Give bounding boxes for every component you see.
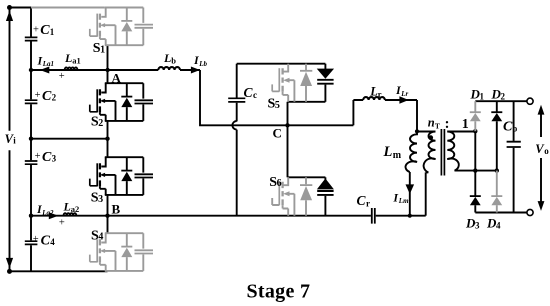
svg-text:+: + (35, 90, 41, 101)
svg-text:Lm: Lm (398, 197, 409, 205)
wire bridge bottom rail (475, 212, 527, 214)
svg-text:+: + (33, 25, 39, 36)
node A junction (105, 68, 109, 72)
svg-text:4: 4 (50, 237, 55, 247)
svg-text:L: L (383, 144, 393, 160)
diode D1 (gray) (470, 101, 481, 131)
svg-text:2: 2 (501, 92, 506, 102)
labels middle and right (244, 83, 550, 230)
svg-text:Lr: Lr (400, 90, 408, 98)
transistor S6 (gray, off) (272, 177, 294, 215)
svg-text:L: L (64, 51, 72, 65)
svg-text:C: C (244, 85, 254, 100)
diode D4 (gray) (491, 171, 502, 213)
svg-text:4: 4 (496, 221, 501, 231)
wire row A corner down to node C (200, 70, 288, 125)
wire node C to Lr branch (288, 100, 364, 125)
current arrow ILa2 (49, 212, 59, 219)
svg-text:C: C (503, 120, 513, 135)
wire S5 bottom rail (288, 101, 326, 103)
current arrow ILb (191, 67, 200, 74)
svg-text:1: 1 (480, 92, 485, 102)
inductor Lr (363, 97, 385, 100)
svg-text:C: C (357, 193, 367, 208)
wire Cc to bottom rail (236, 130, 238, 216)
node C junction (285, 123, 289, 127)
node ILa1 junction (29, 68, 33, 72)
svg-text:C: C (40, 23, 50, 38)
svg-text:L: L (63, 199, 71, 213)
svg-text:Stage 7: Stage 7 (247, 280, 311, 302)
svg-text:c: c (253, 90, 257, 100)
transistor S2 (black, on) (90, 83, 153, 121)
wire secondary top lead (447, 131, 475, 133)
wire Lm to bottom rail (409, 172, 411, 216)
svg-text:1: 1 (462, 117, 469, 132)
wire capacitor column x=31 (30, 8, 32, 272)
capacitor C4 (25, 241, 38, 244)
wire node A to S2 (107, 70, 109, 83)
node Lm top junction (415, 129, 419, 133)
diode-capacitor branch of S5 (black) (317, 64, 333, 102)
node ILa2 junction (29, 214, 33, 218)
wire S6 top rail (288, 176, 326, 178)
wire S1 source to node A (107, 45, 109, 70)
wire hop over node C wire (232, 121, 236, 130)
svg-text:1: 1 (50, 27, 55, 37)
secondary winding (447, 132, 458, 171)
svg-text:1: 1 (100, 45, 105, 56)
svg-text:2: 2 (52, 93, 57, 103)
wire Lr to corner (385, 100, 417, 131)
svg-text:4: 4 (98, 232, 103, 243)
capacitor Co (507, 101, 521, 212)
svg-text:6: 6 (277, 178, 282, 189)
node secondary top junction (473, 129, 477, 133)
current arrow ILr (399, 96, 408, 103)
svg-text:5: 5 (275, 100, 280, 111)
output rectifier and filter (470, 98, 545, 215)
node secondary bottom junction (473, 168, 477, 172)
svg-text:2: 2 (98, 118, 103, 129)
wire secondary bottom lead (455, 170, 497, 172)
wire primary top lead (417, 131, 436, 133)
terminal top circle (527, 98, 533, 104)
labels left section (5, 23, 311, 302)
inductor La2 (64, 213, 77, 216)
transistor S5 (gray, off) (272, 64, 294, 102)
wire S3 to node B (107, 195, 109, 216)
svg-text:3: 3 (98, 194, 103, 205)
transistor S4 (gray, off) (90, 233, 153, 271)
wire bridge top rail (475, 100, 527, 102)
wire top rail from Vi to capacitor column (10, 7, 33, 9)
svg-text:+: + (59, 71, 65, 82)
transformer T1 (424, 129, 497, 216)
primary return to rail corner (425, 172, 427, 215)
inductor Lm (406, 131, 417, 172)
svg-text:A: A (112, 70, 122, 85)
svg-text:m: m (393, 150, 402, 161)
body diode of S5 (gray) (300, 64, 312, 102)
output voltage Vo arrow (538, 105, 545, 211)
svg-text:L: L (163, 51, 171, 65)
svg-text:r: r (366, 199, 370, 209)
diode D2 (black) (491, 101, 502, 170)
svg-text:T: T (435, 121, 440, 130)
svg-text:C: C (42, 89, 52, 104)
svg-text:n: n (428, 116, 435, 130)
wire bridge mid vertical (474, 131, 476, 170)
core lines (441, 129, 444, 176)
wire node C to S6 (287, 125, 289, 177)
svg-text:a2: a2 (71, 204, 80, 214)
middle block: Cc + S5 + S6 (228, 64, 333, 216)
svg-text:La1: La1 (42, 60, 54, 68)
svg-text:a1: a1 (72, 56, 81, 66)
wire S5 top rail (237, 63, 326, 65)
current arrow ILm (406, 184, 415, 194)
diode D3 (black) (470, 171, 481, 213)
svg-text:r: r (378, 89, 382, 99)
polarity dot primary (429, 135, 434, 140)
transistor S3 (black, on) (90, 157, 153, 195)
svg-text:3: 3 (475, 221, 480, 231)
wire row B main rail (31, 215, 426, 217)
capacitor C2 (25, 100, 38, 103)
input source Vi measurement line (6, 5, 13, 274)
body diode of S6 (gray) (300, 177, 312, 215)
node B junction (105, 214, 109, 218)
svg-text::: : (445, 116, 450, 132)
diode-capacitor branch of S6 (black) (317, 177, 333, 215)
svg-text:+: + (33, 234, 39, 245)
inductor La1 (65, 67, 78, 70)
wire S5 source corner to node C (287, 102, 289, 126)
wire row A (31, 69, 200, 71)
wire node B to S4 (107, 216, 109, 234)
terminal bottom circle (527, 209, 533, 215)
right section: resonant tank + transformer (288, 96, 497, 223)
current arrow ILa1 (40, 67, 50, 74)
wire bottom rail black part (10, 270, 108, 272)
svg-text:Lb: Lb (198, 60, 207, 68)
svg-text:o: o (544, 146, 549, 156)
capacitor Cc (228, 64, 245, 122)
svg-text:+: + (59, 217, 65, 228)
svg-text:C: C (42, 150, 52, 165)
node mid junction (29, 137, 33, 141)
svg-text:o: o (513, 123, 518, 133)
svg-text:+: + (35, 151, 41, 162)
primary winding (424, 132, 436, 173)
capacitor C1 (25, 37, 38, 40)
svg-text:C: C (273, 125, 282, 140)
svg-text:B: B (112, 202, 121, 217)
svg-text:b: b (171, 56, 176, 66)
capacitor C3 (25, 161, 38, 164)
wire mid rail (31, 138, 108, 140)
wire S2 to mid rail (107, 121, 109, 139)
svg-text:C: C (41, 234, 51, 249)
wire mid rail to S3 (107, 139, 109, 158)
svg-text:La2: La2 (41, 209, 54, 217)
svg-text:3: 3 (52, 154, 57, 164)
inductor Lb (158, 67, 180, 70)
transistor S1 (gray, off) (31, 8, 153, 46)
capacitor Cr (372, 208, 375, 224)
